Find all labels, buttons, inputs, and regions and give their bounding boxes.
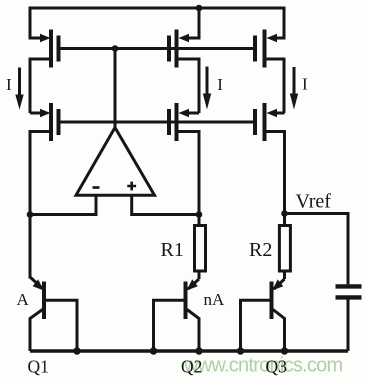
transistor Q1 (PNP, left)	[30, 277, 77, 351]
node: R1 top junction	[196, 211, 203, 218]
label Q2	[181, 357, 202, 377]
node: Q3 base on ground rail	[237, 347, 244, 354]
ground rail	[30, 349, 348, 352]
label A	[17, 290, 30, 309]
wire: op-amp output	[114, 49, 117, 129]
node A junction	[27, 211, 34, 218]
transistor Q2 (PNP, middle)	[154, 279, 200, 351]
node: Vref junction	[281, 210, 288, 217]
svg-text:I: I	[302, 75, 308, 94]
label Q1	[28, 357, 49, 377]
label R1	[161, 239, 184, 261]
svg-text:I: I	[6, 75, 12, 94]
node: Q2 base on ground rail	[150, 347, 157, 354]
wire: row-2 gate rail	[59, 121, 256, 124]
top supply rail	[30, 7, 284, 10]
transistor M3 (top-right PMOS)	[255, 7, 284, 114]
svg-text:R2: R2	[249, 239, 272, 261]
transistor M6 (second-row right PMOS)	[255, 103, 285, 214]
wire: node A down to Q1	[29, 215, 32, 279]
current arrow I (left)	[15, 68, 23, 110]
svg-text:A: A	[17, 290, 30, 309]
node: Q3 collector on ground rail	[281, 347, 288, 354]
wire: inverting input to node A	[30, 195, 96, 214]
transistor Q3 (PNP, right)	[241, 279, 285, 351]
wire: Vref to capacitor branch	[285, 214, 349, 285]
svg-text:nA: nA	[204, 290, 226, 309]
wire: non-inverting input to R1 node	[132, 195, 199, 214]
capacitor C1	[336, 286, 362, 351]
label R2	[249, 239, 272, 261]
current arrow I (right)	[290, 67, 298, 110]
transistor M4 (second-row left PMOS)	[30, 103, 59, 215]
node: rail junction to M2 source	[196, 5, 203, 12]
svg-text:R1: R1	[161, 239, 184, 261]
current arrow I (middle)	[203, 67, 211, 110]
op-amp U1	[76, 128, 155, 196]
svg-text:Q1: Q1	[28, 357, 49, 377]
node: Q2 collector on ground rail	[195, 347, 202, 354]
node: Q1 base on ground rail	[73, 347, 80, 354]
resistor R2	[279, 214, 290, 280]
label I (left)	[6, 75, 12, 94]
transistor M1 (top-left PMOS)	[30, 7, 59, 114]
label nA	[204, 290, 226, 309]
transistor M5 (second-row middle PMOS)	[169, 103, 199, 224]
svg-text:Vref: Vref	[296, 191, 332, 213]
label I (middle)	[217, 75, 223, 94]
svg-text:www.cntronics.com: www.cntronics.com	[183, 355, 342, 377]
transistor M2 (top-middle PMOS)	[169, 8, 199, 113]
label I (right)	[302, 75, 308, 94]
resistor R1	[195, 215, 206, 280]
svg-text:I: I	[217, 75, 223, 94]
label Q3	[266, 357, 288, 377]
label Vref	[296, 191, 332, 213]
watermark www.cntronics.com	[183, 355, 342, 377]
wire: row-1 gate rail	[59, 47, 256, 50]
node: op-amp output to gate rail	[112, 45, 119, 52]
